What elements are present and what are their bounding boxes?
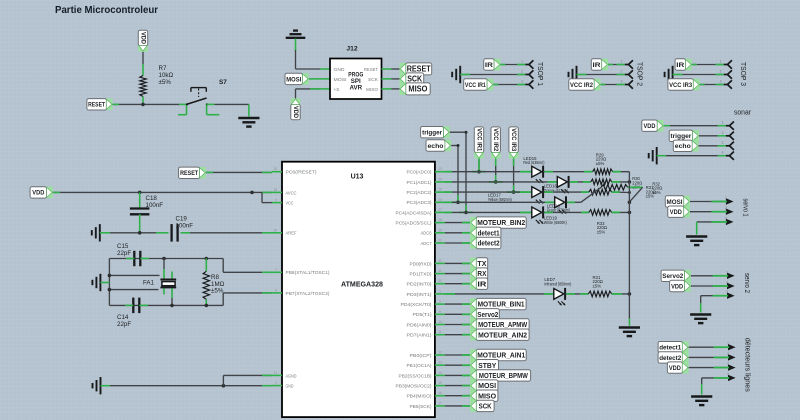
value label LED18 Green (570nm) [547, 203, 570, 212]
capacitor C18 [130, 209, 150, 215]
wire detect2 to lignes pin2 [689, 356, 730, 358]
connector sonar pin4 [722, 151, 734, 160]
pin U13 PD4(XCK/T0) [435, 300, 445, 305]
global label MISO (U13) [470, 390, 498, 401]
wire J12 MISO [392, 88, 400, 90]
pin U13 PC0(ADC0) [435, 167, 445, 172]
capacitor C14 [133, 298, 139, 314]
svg-text:PB0(ICP): PB0(ICP) [410, 353, 433, 358]
connector title detecteurs lignes [744, 338, 751, 393]
pin J12 GND [320, 68, 330, 70]
svg-text:±5%: ±5% [593, 284, 602, 289]
ground TSOP 3 [665, 66, 673, 83]
global label SCK (J12) [400, 73, 424, 85]
global label detect2 (lignes) [658, 352, 689, 363]
svg-text:23: 23 [438, 167, 442, 171]
svg-text:MOSI: MOSI [286, 76, 301, 83]
svg-text:VCC IR3: VCC IR3 [669, 82, 692, 89]
svg-text:1: 1 [439, 289, 441, 293]
global label VDD (sonar) [642, 120, 664, 131]
svg-text:VCC IR2: VCC IR2 [570, 82, 593, 89]
wire LED19 to R33 [543, 211, 589, 213]
value label R33 220Ω ±5% [597, 221, 608, 235]
pin U13 PB0(ICP) [435, 351, 445, 356]
connector title TSOP 3 [739, 62, 746, 86]
wire VDD to servo1 pin2 [690, 211, 728, 213]
svg-text:VDD: VDD [669, 365, 681, 372]
wire ground to sonar pin4 [657, 155, 726, 157]
node junction R21/bus [628, 292, 632, 296]
svg-text:28: 28 [438, 218, 442, 222]
connector lignes pin4 [714, 372, 736, 381]
svg-text:32: 32 [438, 279, 442, 283]
global label RESET (U13) [179, 167, 206, 178]
svg-text:VCC IR2: VCC IR2 [492, 128, 499, 152]
connector title servo 1 [742, 199, 749, 217]
svg-text:J12: J12 [346, 46, 358, 53]
svg-text:8: 8 [275, 288, 277, 292]
pin C18 pin2 [139, 214, 141, 233]
wire servo1 pin3 to ground [697, 222, 728, 235]
wire lignes pin4 to ground [702, 378, 730, 395]
connector title TSOP 1 [536, 62, 543, 86]
wire PC2 row [445, 191, 532, 193]
wire LED17 to R31 [543, 191, 589, 193]
ground servo1 [686, 237, 707, 246]
svg-text:7: 7 [275, 268, 277, 272]
resistor R21 [588, 291, 611, 297]
svg-text:MOSI: MOSI [334, 77, 347, 82]
svg-text:RESET: RESET [88, 102, 105, 109]
LED LED19 [532, 206, 544, 224]
value label R31 220Ω ±5% [646, 185, 656, 198]
value label R32 220Ω ±5% [652, 182, 662, 195]
pin U13 PD7(AIN1) [435, 330, 445, 335]
pin crystal pin1 [164, 259, 172, 279]
svg-text:AGND: AGND [286, 373, 298, 378]
svg-text:AVCC: AVCC [286, 190, 298, 195]
wire U13 to detect1 [445, 232, 470, 234]
wire IR to TSOP 1 pin1 [500, 64, 525, 66]
wire trigger to sonar pin2 [699, 135, 726, 137]
pin U13 PD3(INT1) [435, 289, 445, 294]
connector lignes pin1 [714, 342, 736, 351]
svg-text:Servo2: Servo2 [662, 273, 683, 280]
value label R30 220Ω ±5% [632, 176, 642, 189]
global label IR (TSOP 1) [484, 59, 501, 70]
wire RESET to PC6 [206, 171, 272, 173]
connector TSOP 1 pin1 [521, 60, 533, 69]
global label VCC IR1 (TSOP 1) [464, 79, 494, 90]
U13 pin name PB5(SCK) [410, 404, 432, 409]
global label VCC IR2 (vertical) [491, 127, 500, 159]
J12 pin name RESET [364, 67, 378, 72]
U13 pin name PD3(INT1) [407, 292, 433, 297]
svg-text:Red (635nm): Red (635nm) [523, 160, 544, 165]
pin U13 VCC [272, 198, 282, 203]
wire VDD to AVCC [53, 191, 272, 193]
svg-text:Partie Microcontroleur: Partie Microcontroleur [55, 4, 158, 16]
ground LED bus [619, 328, 640, 337]
svg-text:RESET: RESET [364, 67, 378, 72]
wire U13 to STBY [445, 364, 470, 366]
wire R31 to bus [612, 191, 630, 193]
connector servo2 pin1 [713, 270, 735, 279]
node junction AVCC/VCC branch [250, 191, 254, 195]
wire PC3 row [445, 201, 555, 203]
svg-text:1: 1 [725, 196, 727, 200]
connector TSOP 3 pin1 [720, 60, 732, 69]
node junction R8 bottom [205, 304, 209, 308]
ground at S7 [238, 118, 259, 127]
ground detecteurs lignes [691, 397, 712, 406]
wire branch to AGND [223, 375, 272, 385]
svg-text:echo: echo [675, 143, 691, 150]
wire Servo2 to servo2 pin1 [691, 275, 729, 277]
connector sonar pin1 [722, 121, 734, 130]
value label LED7 Infrared (850nm) [544, 277, 571, 286]
svg-text:FA1: FA1 [143, 279, 155, 286]
global label detect2 (U13) [470, 237, 501, 248]
pin U13 PD5(T1) [435, 310, 445, 315]
reference FA1 [143, 279, 155, 286]
svg-text:13: 13 [438, 361, 442, 365]
wire U13 to MOTEUR_BIN2 [445, 222, 470, 224]
LED LED7 [554, 288, 566, 306]
wire VDD to J12 +S [296, 89, 321, 98]
connector TSOP 1 pin3 [521, 80, 533, 89]
LED LED16 [557, 176, 569, 194]
connector sonar pin3 [722, 141, 734, 150]
node junction R30/bus [628, 180, 632, 184]
pin J12 +S [320, 88, 330, 90]
node junction R7/RESET [141, 103, 145, 107]
U13 pin name PD5(T1) [413, 312, 433, 317]
svg-text:AREF: AREF [286, 231, 297, 236]
pin J12 MOSI [320, 78, 330, 80]
wire R33 to bus [612, 211, 630, 213]
svg-text:MOSI: MOSI [478, 381, 496, 390]
U13 pin name PD2(INT0) [407, 282, 433, 287]
svg-text:9: 9 [439, 310, 441, 314]
node junction crystal bottom [170, 304, 174, 308]
J12 pin name SCK [368, 77, 379, 82]
svg-text:ADC6: ADC6 [421, 231, 432, 236]
svg-text:VDD: VDD [671, 283, 683, 290]
svg-text:21: 21 [273, 371, 277, 375]
global label MOSI (U13) [470, 380, 498, 391]
node junction R31/bus [628, 191, 631, 194]
node junction VCC IR2 [489, 180, 503, 184]
wire LED7 to R21 [565, 293, 588, 295]
svg-text:2: 2 [725, 206, 727, 210]
svg-text:11: 11 [438, 330, 442, 334]
resistor R33 [589, 210, 612, 216]
svg-text:SCK: SCK [407, 75, 422, 84]
connector servo1 pin1 [712, 196, 734, 205]
wire bottom row corner to PB7 [223, 293, 272, 306]
wire VCC IR2 down [495, 159, 497, 182]
capacitor C19 [172, 224, 178, 242]
svg-text:1: 1 [621, 60, 623, 64]
U13 pin name PD4(XCK/T0) [401, 302, 433, 307]
wire RESET to S7 [113, 103, 180, 105]
svg-text:PD2(INT0): PD2(INT0) [407, 282, 433, 287]
svg-text:PC1(ADC1): PC1(ADC1) [407, 180, 432, 185]
node junction crystal top [162, 257, 166, 261]
value label LED17 Yellow (592nm) [488, 193, 512, 202]
svg-text:MOTEUR_BPMW: MOTEUR_BPMW [479, 371, 528, 380]
pin R7 pin1 [142, 64, 144, 76]
value label LED19 White (6500K) [544, 215, 567, 224]
svg-text:30: 30 [438, 259, 442, 263]
global label Servo2 (servo2) [661, 270, 691, 281]
svg-text:Servo2: Servo2 [477, 310, 498, 319]
svg-text:PD3(INT1): PD3(INT1) [407, 292, 433, 297]
svg-text:24: 24 [438, 177, 442, 181]
title text [55, 4, 158, 16]
svg-text:SCK: SCK [479, 402, 493, 411]
svg-text:PB2(SS/OC1B): PB2(SS/OC1B) [399, 373, 432, 378]
svg-text:MOTEUR_APMW: MOTEUR_APMW [478, 320, 527, 329]
U13 pin name PC0(ADC0) [407, 170, 432, 175]
pin U13 PD2(INT0) [435, 279, 445, 284]
wire U13 to MOTEUR_BPMW [445, 374, 470, 376]
svg-text:3: 3 [275, 381, 277, 385]
svg-text:1: 1 [726, 270, 728, 274]
svg-text:VCC IR1: VCC IR1 [465, 82, 486, 89]
svg-text:ATMEGA328: ATMEGA328 [341, 281, 383, 288]
U13 pin name PB2(SS/OC1B) [399, 373, 432, 378]
ground at crystal [92, 274, 100, 291]
global label VCC IR3 (vertical) [509, 127, 518, 159]
svg-text:VCC IR1: VCC IR1 [476, 128, 483, 152]
svg-text:detect1: detect1 [478, 228, 500, 237]
pin R8 pin1 [205, 259, 207, 272]
LED LED15 [532, 166, 544, 184]
global label echo (U13) [426, 140, 451, 151]
wire ground to TSOP 1 pin2 [460, 74, 525, 76]
wire PC0 row [445, 171, 532, 173]
svg-text:VDD: VDD [140, 32, 147, 44]
svg-text:14: 14 [438, 371, 442, 375]
svg-text:MOTEUR_AIN1: MOTEUR_AIN1 [477, 351, 525, 360]
svg-text:PB5(SCK): PB5(SCK) [410, 404, 432, 409]
U13 pin name PB3(MOSI/OC2) [396, 384, 432, 389]
global label VDD (lignes) [667, 362, 688, 373]
U13 pin name PD6(AIN0) [407, 322, 433, 327]
power flag VDD (J12) [291, 98, 300, 120]
resistor R29 [593, 169, 613, 175]
svg-text:Infrared (850nm): Infrared (850nm) [544, 282, 571, 287]
value label C19 100nF [176, 216, 194, 230]
global label MOTEUR_BIN1 (U13) [470, 298, 526, 309]
pin U13 PC5(ADC5/SCL) [435, 218, 445, 223]
wire VCC IR3 to TSOP 3 pin3 [700, 84, 724, 86]
wire top row corner to PB6 [223, 259, 272, 273]
global label RESET (J12) [400, 63, 432, 75]
U13 pin name PB6(XTAL1/TOSC1) [286, 270, 330, 275]
node junction R32/bus [628, 201, 632, 205]
reference U13 [351, 174, 364, 181]
svg-text:ADC7: ADC7 [421, 241, 432, 246]
wire LED ground bus [628, 172, 630, 326]
svg-text:détecteurs lignes: détecteurs lignes [744, 338, 751, 393]
connector servo1 pin2 [712, 206, 734, 215]
svg-text:servo 1: servo 1 [742, 199, 749, 217]
svg-text:PC3(ADC3): PC3(ADC3) [407, 200, 432, 205]
ground servo2 [690, 315, 711, 324]
wire crystal bottom row [109, 304, 223, 306]
wire IR to TSOP 3 pin1 [692, 64, 724, 66]
global label MOTEUR_BPMW (U13) [470, 370, 531, 381]
svg-text:PB6(XTAL1/TOSC1): PB6(XTAL1/TOSC1) [286, 270, 330, 275]
svg-text:IR: IR [477, 279, 487, 288]
svg-text:TSOP 3: TSOP 3 [739, 62, 746, 86]
svg-text:servo 2: servo 2 [743, 273, 750, 293]
pin C14 stubs [125, 304, 148, 306]
svg-text:3: 3 [722, 141, 724, 145]
global label RX (U13) [470, 268, 488, 279]
svg-text:VCC IR3: VCC IR3 [510, 128, 517, 152]
pin U13 PB5(SCK) [435, 401, 445, 406]
svg-text:27: 27 [438, 208, 442, 212]
value label C14 22pF [117, 314, 131, 328]
svg-text:16: 16 [438, 391, 442, 395]
wire VDD to lignes pin3 [689, 367, 730, 369]
connector J12 body [330, 59, 382, 100]
U13 pin name AGND [286, 373, 298, 378]
svg-text:PC2(ADC2): PC2(ADC2) [407, 190, 432, 195]
connector sonar pin2 [722, 131, 734, 140]
U13 pin name ADC7 [421, 241, 432, 246]
resistor R32 [601, 185, 628, 191]
wire ground to J12 GND [296, 39, 321, 70]
value label C15 22pF [117, 243, 131, 257]
wire PC4 row [445, 211, 532, 213]
svg-text:±5%: ±5% [211, 288, 224, 295]
svg-text:2: 2 [521, 70, 523, 74]
pin U13 PB2(SS/OC1B) [435, 371, 445, 376]
value label C18 100nF [146, 195, 164, 209]
pin U13 AVCC [272, 188, 282, 193]
svg-text:MISO: MISO [478, 391, 496, 400]
svg-text:2: 2 [439, 300, 441, 304]
svg-text:±5%: ±5% [159, 79, 172, 86]
wire U13 to TX [445, 262, 470, 264]
global label detect1 (lignes) [658, 342, 689, 353]
wire PC1 row [445, 181, 557, 183]
resistor R30 [591, 179, 612, 185]
wire rail to crystal upper [109, 274, 159, 276]
node junction trigger/PC4 [459, 205, 473, 214]
svg-text:MOSI: MOSI [667, 199, 683, 206]
microcontroller U13 body [282, 162, 435, 417]
pin U13 ADC7 [435, 239, 445, 244]
node junction trigger corner [465, 131, 468, 134]
reference S7 [219, 79, 227, 86]
svg-text:echo: echo [428, 143, 444, 150]
connector TSOP 1 pin2 [521, 70, 533, 79]
global label IR (TSOP 3) [675, 59, 692, 70]
U13 pin name PC2(ADC2) [407, 190, 432, 195]
U13 part name ATMEGA328 [341, 281, 383, 288]
svg-text:22pF: 22pF [117, 321, 131, 328]
pin U13 ADC6 [435, 228, 445, 233]
pin U13 PD1(TXD) [435, 269, 445, 274]
J12 pin name MOSI [334, 77, 347, 82]
svg-text:2: 2 [726, 281, 728, 285]
global label VCC IR1 (vertical) [474, 127, 483, 159]
node junction AGND branch [222, 384, 226, 388]
wire R32 to bus diagonal [628, 187, 643, 201]
wire detect1 to lignes pin1 [689, 346, 730, 348]
reference J12 [346, 46, 358, 53]
svg-text:3: 3 [521, 80, 523, 84]
svg-text:3: 3 [621, 80, 623, 84]
wire R30 to bus [612, 181, 630, 183]
wire U13 to MOTEUR_AIN2 [445, 334, 470, 336]
svg-text:22: 22 [438, 239, 442, 243]
pin U13 PD6(AIN0) [435, 320, 445, 325]
connector servo1 pin3 [712, 216, 734, 225]
global label VCC IR2 (TSOP 2) [569, 79, 601, 90]
U13 pin name PC1(ADC1) [407, 180, 432, 185]
pin S7 pin2b stub [207, 106, 220, 115]
svg-text:100nF: 100nF [146, 202, 164, 209]
wire U13 to MISO [445, 395, 470, 397]
pin U13 PC4(ADC4/SDA) [435, 208, 445, 213]
ground TSOP 1 [452, 66, 460, 83]
global label echo (sonar) [673, 140, 698, 151]
svg-text:TSOP 1: TSOP 1 [536, 62, 543, 86]
global label IR (TSOP 2) [591, 59, 608, 70]
wire R21 to bus [612, 293, 630, 295]
connector lignes pin2 [714, 352, 736, 361]
U13 pin name PD7(AIN1) [407, 333, 433, 338]
wire ground to TSOP 3 pin2 [673, 74, 724, 76]
connector TSOP 2 pin3 [621, 80, 633, 89]
svg-text:VCC: VCC [286, 201, 295, 206]
global label SCK (U13) [470, 400, 494, 411]
wire echo to PC3 [451, 146, 458, 203]
svg-text:PC6(/RESET): PC6(/RESET) [286, 170, 318, 175]
svg-text:3: 3 [720, 80, 722, 84]
J12 part name PROG SPI AVR [348, 72, 363, 92]
svg-text:RESET: RESET [407, 65, 431, 74]
wire U13 to MOTEUR_APMW [445, 324, 470, 326]
svg-text:IR: IR [676, 62, 684, 69]
node junction R8 top [205, 257, 209, 261]
global label VDD (U13 supply) [30, 187, 53, 198]
pin S7 pin2 [207, 103, 215, 105]
wire PD3 row [445, 293, 554, 295]
svg-text:GND: GND [334, 67, 346, 72]
svg-text:MISO: MISO [408, 85, 427, 94]
pin U13 PC6(/RESET) [272, 167, 282, 172]
svg-text:PB7(XTAL2/TOSC2): PB7(XTAL2/TOSC2) [286, 291, 330, 296]
svg-text:VDD: VDD [670, 209, 682, 216]
wire U13 to MOTEUR_AIN1 [445, 354, 470, 356]
wire ground to GND pin [101, 385, 273, 387]
svg-text:1: 1 [720, 60, 722, 64]
svg-text:PD4(XCK/T0): PD4(XCK/T0) [401, 302, 433, 307]
global label TX (U13) [470, 258, 488, 269]
wire J12 RESET [392, 68, 400, 70]
svg-text:PC5(ADC5/SCL): PC5(ADC5/SCL) [396, 221, 432, 226]
node junction echo corner [457, 144, 460, 147]
svg-text:PB4(MISO): PB4(MISO) [407, 394, 432, 399]
